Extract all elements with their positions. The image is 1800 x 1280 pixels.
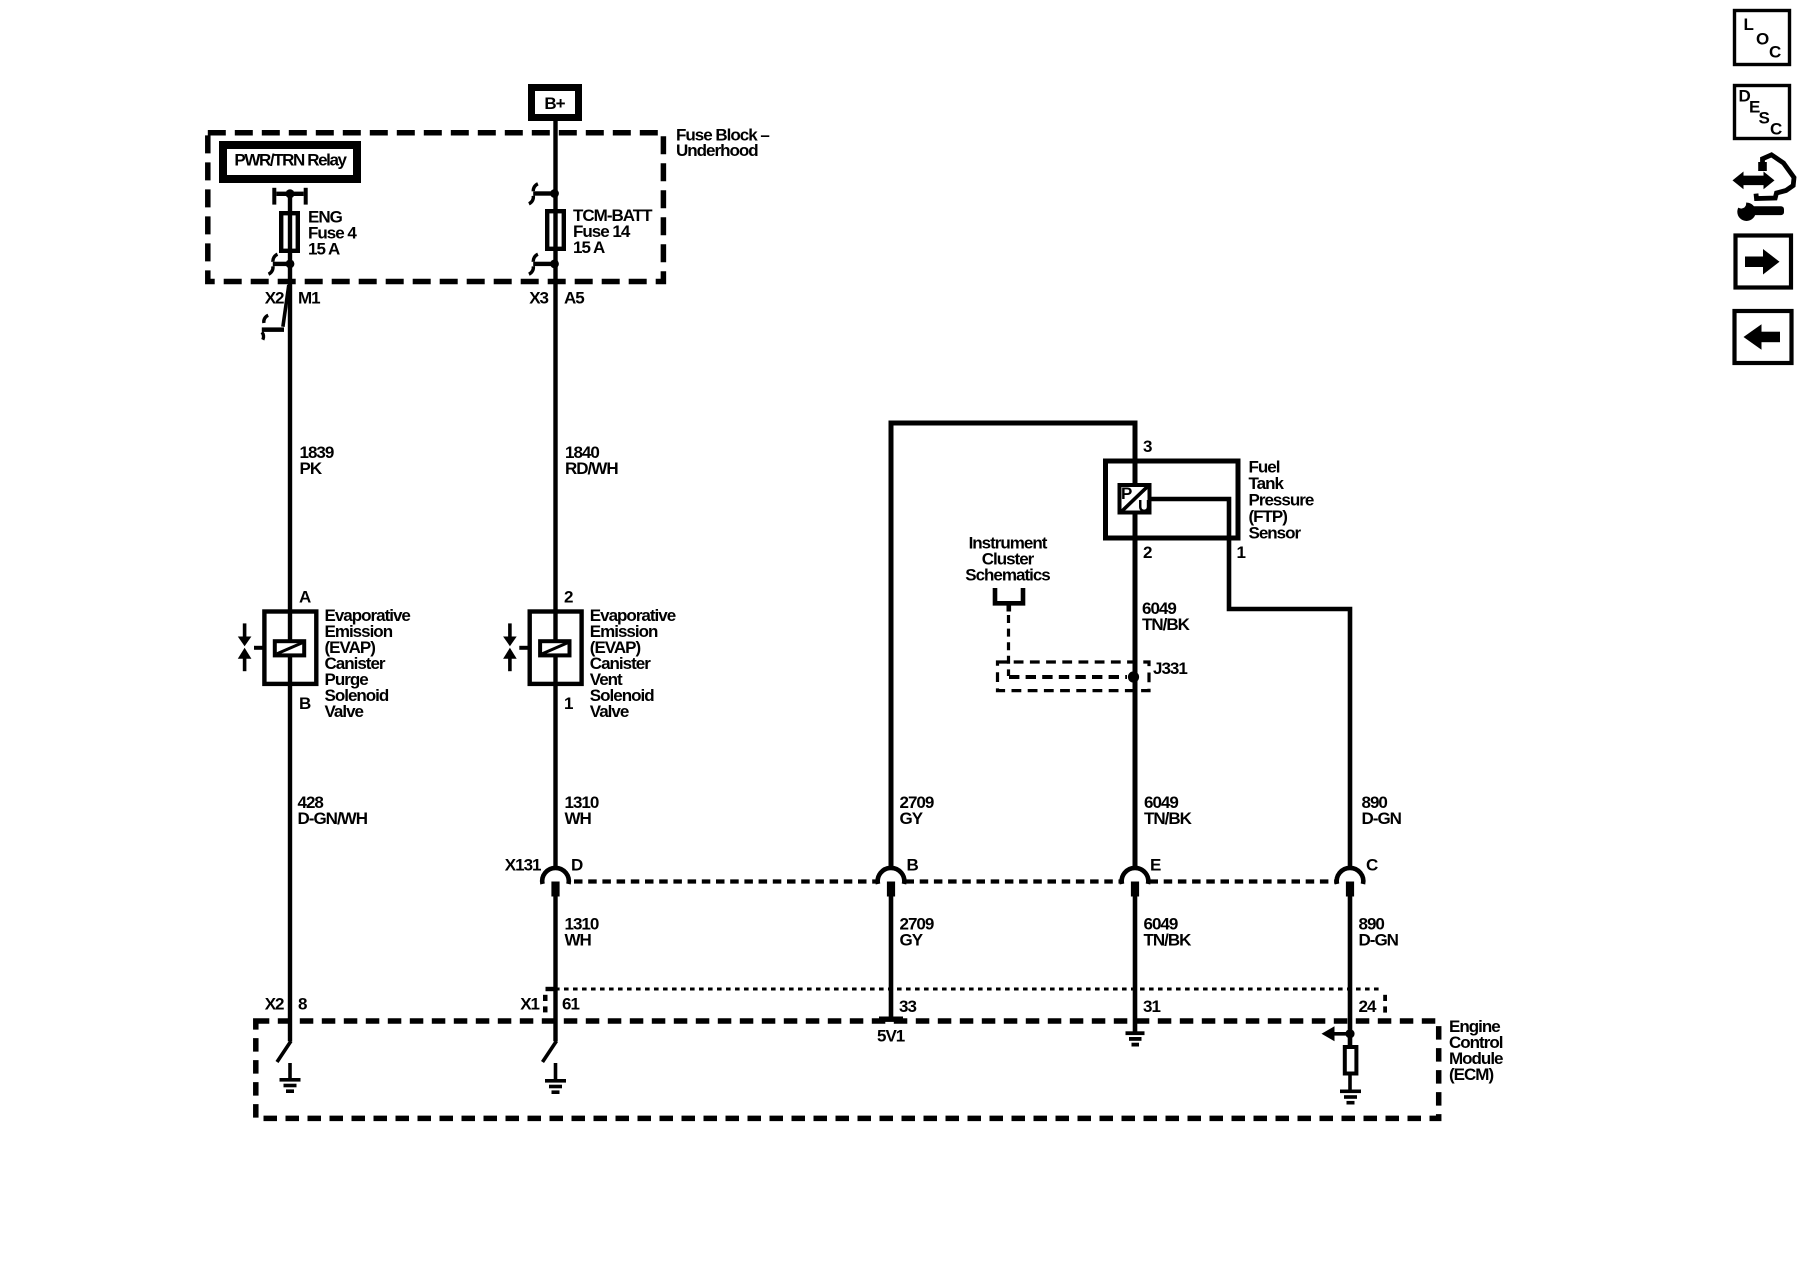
- svg-text:L: L: [1744, 15, 1754, 34]
- svg-text:8: 8: [298, 995, 307, 1014]
- X131 terminal E: [1122, 856, 1161, 897]
- svg-text:WH: WH: [565, 931, 592, 950]
- EVAP vent solenoid coil: [519, 641, 569, 655]
- svg-text:A5: A5: [564, 289, 584, 308]
- fuse block label: [676, 125, 769, 160]
- signal arrow into ECM at pin 24: [1322, 1026, 1355, 1041]
- in-line connector symbol at X2 M1: [262, 285, 289, 340]
- relay PWR/TRN: [223, 145, 357, 179]
- svg-text:2: 2: [1143, 543, 1152, 562]
- svg-text:15 A: 15 A: [573, 238, 605, 257]
- fuse TCM-BATT Fuse 14 15 A: [547, 206, 653, 257]
- svg-text:TN/BK: TN/BK: [1144, 931, 1193, 950]
- wire labels 2709 GY upper: [900, 793, 934, 828]
- wire 1840 RD/WH / 1310 WH (EVAP vent control): [553, 119, 557, 1041]
- wire labels 1840 RD/WH: [565, 443, 618, 478]
- svg-text:P: P: [1121, 484, 1132, 503]
- svg-text:TN/BK: TN/BK: [1142, 615, 1191, 634]
- svg-text:Underhood: Underhood: [676, 141, 758, 160]
- connector X2 pin M1 labels: [265, 289, 320, 308]
- connector X3 pin A5 labels: [529, 289, 584, 308]
- svg-text:D-GN: D-GN: [1362, 809, 1402, 828]
- wire 6049 TN/BK (signal): [1133, 423, 1138, 1032]
- 5V1 supply terminal bar: [877, 1017, 905, 1046]
- wire 2709 GY (5V reference): [889, 423, 1138, 1018]
- connector X1 dotted row: [543, 987, 1387, 1013]
- svg-text:D: D: [571, 856, 583, 875]
- svg-text:GY: GY: [900, 931, 924, 950]
- svg-text:1: 1: [1237, 543, 1246, 562]
- wire labels 1310 WH upper: [565, 793, 599, 828]
- splice J331 dashed box: [998, 659, 1188, 691]
- fuse block - underhood dashed box: [208, 133, 664, 282]
- engine control module ECM dashed box: [256, 1017, 1503, 1119]
- EVAP purge valve symbol: [238, 623, 252, 671]
- svg-text:S: S: [1759, 109, 1770, 128]
- svg-text:Sensor: Sensor: [1249, 523, 1302, 542]
- wire labels 890 D-GN lower: [1359, 915, 1399, 950]
- svg-text:X2: X2: [265, 289, 284, 308]
- ECM connector X1 pin 61 labels: [520, 995, 579, 1014]
- svg-text:E: E: [1150, 856, 1161, 875]
- svg-text:D-GN: D-GN: [1359, 931, 1399, 950]
- pull-up resistor inside ECM: [1345, 1047, 1357, 1074]
- node B+ battery feed: [532, 88, 579, 118]
- instrument cluster schematics reference: [965, 533, 1050, 611]
- ECM connector X2 pin 8 labels: [265, 995, 307, 1014]
- svg-text:X3: X3: [529, 289, 548, 308]
- svg-text:B+: B+: [544, 94, 565, 113]
- svg-text:PK: PK: [300, 459, 323, 478]
- svg-text:TN/BK: TN/BK: [1144, 809, 1193, 828]
- ECM driver switch for purge: [277, 1041, 291, 1062]
- dashed lead to splice: [1007, 615, 1010, 676]
- wire labels 1839 PK: [300, 443, 334, 478]
- svg-text:GY: GY: [900, 809, 924, 828]
- svg-text:X131: X131: [505, 856, 541, 875]
- EVAP purge solenoid coil: [254, 641, 304, 655]
- X131 terminal B: [878, 856, 919, 897]
- svg-text:D-GN/WH: D-GN/WH: [298, 809, 368, 828]
- FTP pressure transducer P/U symbol: [1120, 484, 1151, 516]
- svg-text:B: B: [907, 856, 919, 875]
- svg-text:2: 2: [564, 587, 573, 606]
- connector X131 dashed row: [574, 879, 1337, 883]
- ground inside ECM at pin 8: [280, 1063, 301, 1093]
- svg-text:RD/WH: RD/WH: [565, 459, 618, 478]
- svg-text:5V1: 5V1: [877, 1027, 905, 1046]
- svg-text:C: C: [1770, 120, 1782, 139]
- svg-text:33: 33: [899, 997, 916, 1016]
- fuse ENG Fuse 4 15 A: [281, 208, 357, 259]
- ground inside ECM at pin 61: [545, 1063, 566, 1094]
- icon back arrow: [1735, 311, 1792, 363]
- clip below ENG fuse: [269, 254, 295, 274]
- fuel tank pressure FTP sensor box: [1106, 457, 1314, 542]
- svg-text:15 A: 15 A: [308, 240, 340, 259]
- svg-text:1: 1: [564, 694, 573, 713]
- svg-text:PWR/TRN Relay: PWR/TRN Relay: [234, 151, 347, 170]
- wire labels 2709 GY lower: [900, 915, 934, 950]
- icon forward arrow: [1736, 236, 1792, 288]
- wire labels 428 D-GN/WH: [298, 793, 368, 828]
- EVAP canister vent solenoid valve box: [530, 606, 676, 721]
- wire 890 D-GN (low reference): [1152, 499, 1351, 1046]
- svg-text:X2: X2: [265, 995, 284, 1014]
- svg-text:X1: X1: [520, 995, 539, 1014]
- wire labels 1310 WH lower: [565, 915, 599, 950]
- svg-text:J331: J331: [1153, 659, 1187, 678]
- X131 terminal D: [542, 856, 583, 897]
- wire labels 6049 TN/BK upper: [1144, 793, 1193, 828]
- svg-text:O: O: [1756, 30, 1769, 49]
- svg-text:M1: M1: [298, 289, 320, 308]
- relay output terminal clips: [272, 188, 307, 205]
- clip below TCM-BATT fuse: [529, 254, 559, 274]
- wire labels 890 D-GN upper: [1362, 793, 1402, 828]
- ground inside ECM at pin 31: [1126, 1031, 1145, 1046]
- EVAP canister purge solenoid valve box: [264, 606, 410, 721]
- icon DESC: [1735, 86, 1790, 139]
- clip above TCM-BATT fuse: [529, 184, 559, 204]
- svg-text:61: 61: [562, 995, 579, 1014]
- svg-text:3: 3: [1143, 437, 1152, 456]
- wire 1839 PK / 428 D-GN/WH (EVAP purge control): [288, 194, 292, 1042]
- wire labels 6049 TN/BK lower: [1144, 915, 1193, 950]
- ground inside ECM at pin 24: [1340, 1076, 1361, 1105]
- svg-text:Valve: Valve: [590, 702, 629, 721]
- EVAP vent valve symbol: [503, 623, 517, 671]
- svg-text:C: C: [1366, 856, 1378, 875]
- svg-text:A: A: [299, 587, 311, 606]
- svg-text:24: 24: [1359, 997, 1377, 1016]
- X131 terminal C: [1337, 856, 1378, 897]
- svg-text:WH: WH: [565, 809, 592, 828]
- icon LOC: [1735, 11, 1790, 65]
- svg-text:Valve: Valve: [325, 702, 364, 721]
- svg-text:31: 31: [1143, 997, 1160, 1016]
- svg-text:C: C: [1769, 43, 1781, 62]
- icon flip/diagnostic tool: [1733, 155, 1795, 221]
- svg-text:B: B: [299, 694, 311, 713]
- ECM driver switch for vent: [543, 1041, 557, 1062]
- wire labels 6049 TN/BK at sensor: [1142, 599, 1191, 634]
- svg-text:Schematics: Schematics: [965, 565, 1050, 584]
- svg-text:U: U: [1138, 497, 1150, 516]
- svg-text:(ECM): (ECM): [1449, 1065, 1493, 1084]
